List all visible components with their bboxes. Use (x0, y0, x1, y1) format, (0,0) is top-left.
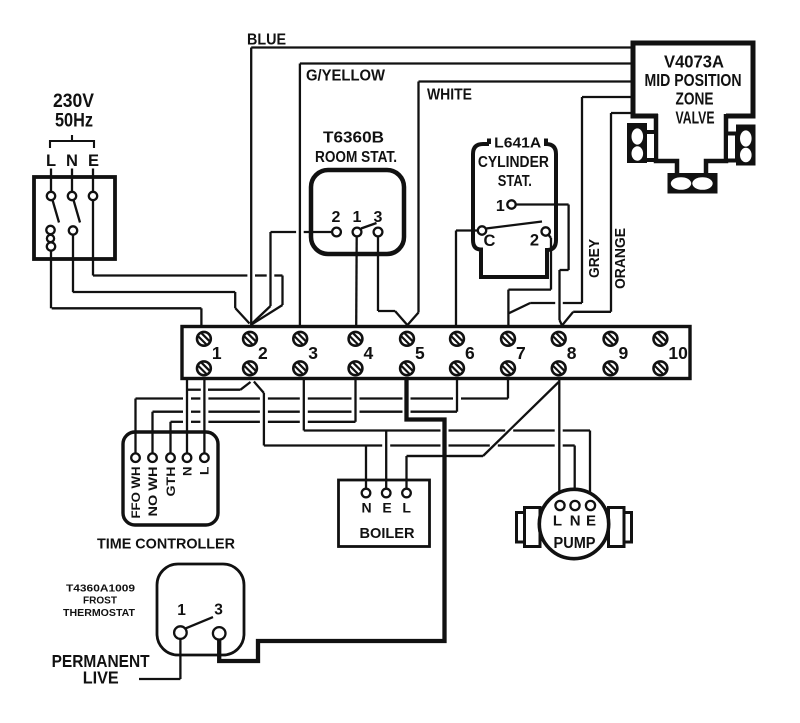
svg-text:N: N (180, 467, 194, 477)
wire terminal 2 riser (254, 382, 264, 446)
label BOILER (360, 525, 415, 542)
terminal 8 number (567, 343, 577, 363)
wire H1 terminal 7 to HW OFF (136, 397, 509, 399)
terminal 6 number (465, 343, 475, 363)
wire supply N run to terminal 2 (73, 292, 250, 324)
svg-text:GREY: GREY (586, 239, 603, 278)
room stat switch arm (361, 223, 377, 229)
wire cylinder stat 2 to terminal 7 (508, 235, 551, 327)
cylinder stat terminal C (478, 226, 486, 234)
wire to time controller N (186, 380, 188, 454)
svg-text:FFO WH: FFO WH (129, 467, 143, 519)
terminal 7 number (516, 343, 526, 363)
terminal 6 screws (450, 332, 464, 375)
time controller pin label HTG (164, 467, 178, 497)
svg-text:L: L (402, 500, 411, 516)
frost stat pin 3 label (214, 602, 223, 619)
supply N lower contact (69, 226, 77, 234)
wire N below contact (72, 235, 74, 292)
room stat terminal 1 (353, 228, 362, 237)
svg-text:8: 8 (567, 343, 577, 363)
terminal 5 number (415, 343, 425, 363)
room stat terminal 2 (332, 228, 341, 237)
time controller terminal HTG (166, 453, 175, 462)
time controller terminal N (183, 453, 192, 462)
label G/YELLOW (306, 68, 386, 85)
svg-text:1: 1 (496, 198, 505, 215)
terminal 3 number (308, 343, 318, 363)
wire L below contacts (50, 251, 52, 309)
svg-text:THERMOSTAT: THERMOSTAT (63, 607, 136, 619)
svg-text:T6360B: T6360B (323, 130, 384, 147)
cylinder stat switch arm (486, 222, 542, 229)
terminal 10 screws (654, 332, 668, 375)
svg-text:N: N (570, 513, 581, 530)
terminal 3 screws (293, 332, 307, 375)
svg-text:STAT.: STAT. (498, 173, 532, 190)
wire H3 terminal 4 to HTG (171, 421, 356, 423)
svg-text:NO WH: NO WH (146, 467, 160, 517)
wire terminal 8 diagonal to boiler L (407, 382, 559, 456)
time controller pin label L (198, 467, 212, 476)
label PUMP (554, 535, 596, 552)
svg-text:G/YELLOW: G/YELLOW (306, 68, 386, 85)
wire room stat 1 to terminal 4 (355, 236, 358, 326)
frost stat terminal 1 (174, 626, 187, 639)
supply switch L (47, 192, 59, 223)
wire H6 gap segment (407, 455, 484, 457)
svg-text:VALVE: VALVE (676, 108, 715, 128)
wire terminal 4 riser (354, 380, 356, 422)
svg-text:T4360A1009: T4360A1009 (66, 583, 135, 595)
boiler box (339, 480, 430, 547)
zone valve right flange (736, 125, 756, 166)
terminal 4 screws (349, 332, 363, 375)
frost stat switch arm (186, 617, 213, 628)
svg-text:230V: 230V (53, 91, 94, 112)
boiler terminal N (362, 489, 371, 498)
svg-text:LIVE: LIVE (83, 668, 119, 688)
svg-text:3: 3 (308, 343, 318, 363)
terminal 7 screws (501, 332, 515, 375)
zone valve left pipe stub (645, 132, 657, 160)
wire E inside box (92, 200, 94, 275)
supply bracket (50, 135, 94, 148)
terminal 9 number (619, 343, 629, 363)
wire cylinder stat 1 to terminal 8 (516, 205, 569, 327)
time controller box (123, 432, 218, 525)
terminal 1 number (212, 343, 222, 363)
cylinder stat pin C label (483, 232, 495, 250)
svg-text:BOILER: BOILER (360, 525, 415, 542)
wire time controller HW OFF riser (134, 399, 136, 454)
wire boiler L riser (405, 456, 407, 489)
time controller pin label HW ON (146, 467, 160, 517)
supply box (34, 177, 115, 259)
terminal 1 screws (197, 332, 211, 375)
wire H2 terminal 6 to HW ON (153, 411, 458, 413)
pump terminal L (555, 501, 564, 510)
label GREY (586, 239, 603, 278)
pump right flange (609, 508, 632, 547)
svg-text:L: L (198, 467, 212, 476)
wire time controller HW ON riser (151, 412, 153, 454)
label room stat (315, 130, 397, 167)
pump terminal E (586, 501, 595, 510)
wire room stat 3 to terminal 5 (378, 236, 407, 325)
terminal 2 number (258, 343, 268, 363)
svg-text:9: 9 (619, 343, 629, 363)
zone valve V4073A actuator box (633, 43, 753, 116)
svg-text:2: 2 (332, 209, 341, 226)
wire supply L run to terminal 1 (52, 308, 202, 326)
pump terminal N (570, 501, 579, 510)
terminal strip block (182, 327, 690, 379)
wire boiler E riser (385, 431, 387, 489)
wire room stat 2 to terminal 2 (252, 232, 333, 324)
zone valve bottom flange (668, 173, 718, 194)
wire supply E run to terminal 2 (93, 276, 283, 325)
svg-text:MID POSITION: MID POSITION (645, 70, 742, 90)
wire time controller HTG riser (169, 422, 171, 454)
wire H4 terminal 3 to pump E (304, 431, 590, 502)
svg-text:N: N (362, 500, 372, 516)
wire supply N lead (71, 169, 73, 193)
frost stat pin 1 label (177, 602, 186, 619)
wire terminal 6 riser (456, 380, 458, 412)
svg-text:L641A: L641A (494, 134, 541, 151)
wire WHITE (408, 82, 634, 326)
cylinder stat pin 1 label (496, 198, 505, 215)
terminal 8 screws (552, 332, 566, 375)
wire ORANGE valve to terminal 8 (562, 113, 634, 326)
wire permanent live (thick) terminal 5 to frost stat 3 (219, 380, 444, 661)
svg-text:2: 2 (258, 343, 268, 363)
label frost thermostat (63, 583, 136, 620)
zone valve label (645, 52, 742, 128)
supply terminal labels L N E (46, 152, 99, 170)
pump pin labels L N E (553, 513, 596, 530)
label BLUE (247, 32, 286, 49)
cylinder stat L641A box (473, 139, 556, 278)
cylinder stat terminal 2 (542, 227, 550, 235)
time controller terminal HW ON (148, 453, 157, 462)
svg-text:1: 1 (353, 209, 362, 226)
mains supply label 230V 50Hz (53, 91, 94, 132)
pump body (539, 489, 608, 558)
wire supply E lead (92, 169, 94, 193)
frost thermostat box (157, 564, 244, 655)
svg-text:PUMP: PUMP (554, 535, 596, 552)
wire terminal 7 riser (507, 380, 509, 399)
wire G/YELLOW (300, 64, 633, 327)
svg-text:3: 3 (214, 602, 223, 619)
time controller terminal HW OFF (131, 453, 140, 462)
wire timer N branch to terminal 2 (187, 382, 251, 390)
frost stat terminal 3 (213, 627, 226, 640)
zone valve body outline (656, 114, 726, 174)
svg-text:GTH: GTH (164, 467, 178, 497)
svg-text:10: 10 (668, 343, 688, 363)
zone valve right pipe stub (726, 134, 737, 161)
room stat pin labels 2 1 3 (332, 209, 383, 226)
svg-text:L: L (553, 513, 562, 530)
terminal 2 screws (243, 332, 257, 375)
wire frost stat 1 to permanent live (139, 639, 180, 679)
svg-text:ORANGE: ORANGE (612, 228, 629, 289)
wire BLUE (251, 48, 633, 327)
svg-text:ROOM STAT.: ROOM STAT. (315, 149, 397, 166)
terminal 9 screws (604, 332, 618, 375)
label cylinder stat (478, 134, 549, 190)
room stat T6360B box (311, 170, 404, 254)
terminal 4 number (364, 343, 374, 363)
svg-text:V4073A: V4073A (664, 52, 724, 72)
svg-text:CYLINDER: CYLINDER (478, 154, 549, 171)
time controller pin label N (180, 467, 194, 477)
svg-text:TIME CONTROLLER: TIME CONTROLLER (97, 536, 235, 553)
cylinder stat terminal 1 (507, 200, 515, 208)
label ORANGE (612, 228, 629, 289)
terminal 10 number (668, 343, 688, 363)
svg-text:BLUE: BLUE (247, 32, 286, 49)
wire supply L lead (50, 169, 52, 193)
svg-text:4: 4 (364, 343, 374, 363)
wire terminal 8 to pump L (558, 380, 560, 501)
svg-text:5: 5 (415, 343, 425, 363)
label TIME CONTROLLER (97, 536, 235, 553)
svg-text:1: 1 (212, 343, 222, 363)
wire terminal 3 riser (303, 380, 305, 431)
svg-text:E: E (382, 500, 391, 516)
svg-text:E: E (88, 152, 99, 170)
svg-text:WHITE: WHITE (427, 87, 472, 104)
label PERMANENT LIVE (52, 651, 150, 688)
label WHITE (427, 87, 472, 104)
wire H5 terminal 2 to pump N (264, 446, 575, 502)
supply contact E (89, 192, 97, 200)
wire GREY valve to terminal 7 (508, 97, 634, 314)
boiler terminal E (382, 489, 391, 498)
wire boiler N riser (365, 446, 367, 489)
svg-text:FROST: FROST (83, 595, 118, 607)
supply switch N (68, 192, 80, 223)
svg-text:50Hz: 50Hz (55, 111, 93, 132)
svg-text:L: L (46, 152, 56, 170)
boiler terminal L (402, 489, 411, 498)
svg-text:1: 1 (177, 602, 186, 619)
svg-text:ZONE: ZONE (676, 89, 714, 109)
pump left flange (517, 508, 541, 547)
svg-text:N: N (66, 152, 78, 170)
wire cylinder stat C to terminal 6 (456, 231, 478, 327)
time controller pin label HW OFF (129, 467, 143, 519)
svg-text:7: 7 (516, 343, 526, 363)
supply L lower contacts (46, 226, 55, 251)
terminal 5 screws (400, 332, 414, 375)
room stat terminal 3 (374, 228, 383, 237)
zone valve left flange (627, 123, 647, 163)
boiler pin labels N E L (362, 500, 412, 516)
time controller terminal L (200, 453, 209, 462)
wire terminal 1 to time controller L (203, 380, 205, 454)
svg-text:E: E (586, 513, 596, 530)
svg-text:2: 2 (530, 232, 539, 250)
cylinder stat pin 2 label (530, 232, 539, 250)
svg-text:6: 6 (465, 343, 475, 363)
